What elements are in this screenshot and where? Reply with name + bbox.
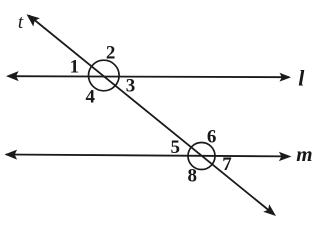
svg-text:1: 1: [70, 57, 80, 78]
line l: [10, 76, 289, 77]
transversal t: [29, 16, 274, 215]
arrowhead bottom of transversal t: [263, 204, 276, 216]
arrowhead right of line m: [279, 152, 292, 161]
svg-text:l: l: [298, 65, 305, 90]
svg-text:t: t: [18, 12, 24, 33]
svg-text:m: m: [296, 142, 312, 166]
svg-text:7: 7: [222, 154, 232, 175]
svg-text:3: 3: [126, 76, 136, 97]
arrowhead right of line l: [280, 73, 292, 82]
svg-text:4: 4: [85, 87, 95, 108]
circle at intersection with l: [89, 60, 120, 91]
arrowhead left of line l: [6, 71, 19, 81]
svg-text:6: 6: [207, 127, 217, 148]
line m: [6, 155, 288, 157]
svg-text:5: 5: [171, 137, 181, 158]
svg-text:8: 8: [187, 166, 197, 187]
svg-text:2: 2: [106, 42, 116, 63]
circle at intersection with m: [188, 143, 215, 170]
arrowhead top of transversal t: [27, 14, 40, 26]
arrowhead left of line m: [5, 150, 18, 160]
